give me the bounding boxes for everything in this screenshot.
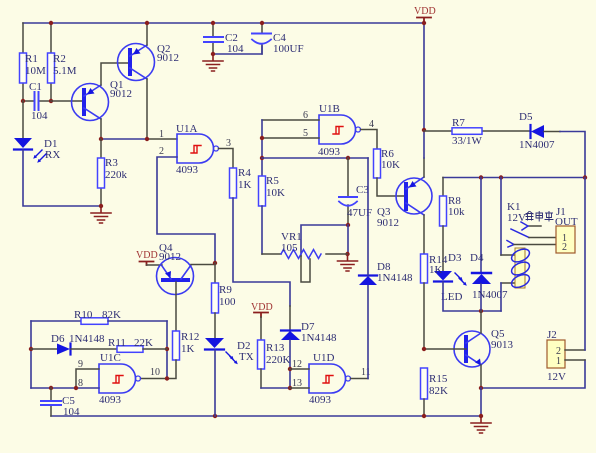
transistor Q3 [377,158,432,254]
svg-text:1N4148: 1N4148 [69,333,105,345]
ground bottom right [471,416,491,433]
wire R5 bottom to VR1 [261,206,263,254]
svg-text:10M: 10M [25,65,46,77]
resistor R11 [108,337,167,352]
node VDD at R13 [251,302,273,317]
wire D2 to bottom rail [214,350,216,416]
resistor R7 [424,117,530,147]
svg-text:R11: R11 [108,337,126,349]
svg-text:100: 100 [219,296,236,308]
svg-text:OUT: OUT [555,216,578,228]
capacitor C5 [41,388,80,418]
svg-text:11: 11 [361,367,371,378]
wire D5 to right column [560,132,585,178]
diode D2 TX [205,338,254,364]
wire U1D out to D8 [351,378,369,380]
wire R6 to Q3 base [377,178,406,196]
svg-text:220k: 220k [105,169,128,181]
junction R9 top [213,261,217,265]
svg-text:D6: D6 [51,333,65,345]
resistor R1 [20,23,47,101]
junction rail coil [499,175,503,179]
relay K1 [501,178,541,312]
svg-text:R13: R13 [266,342,285,354]
diode D1 RX [14,101,60,163]
junction Q2 emitter rail [145,21,149,25]
svg-text:R4: R4 [238,167,251,179]
diode D8 [359,158,413,285]
resistor R8 [440,178,466,272]
svg-text:33/1W: 33/1W [452,135,483,147]
junction R15 bottom [422,414,426,418]
svg-text:C1: C1 [29,81,42,93]
svg-text:10K: 10K [381,159,400,171]
svg-text:VDD: VDD [251,302,273,313]
junction U1D pin13 [288,386,292,390]
wire R4 to D7 [233,198,290,306]
junction C5 top [49,386,53,390]
junction U1B pin5 [260,136,264,140]
svg-text:2: 2 [562,242,567,253]
svg-text:1N4007: 1N4007 [472,289,508,301]
svg-text:82K: 82K [429,385,448,397]
svg-text:RX: RX [45,149,60,161]
svg-text:5.1M: 5.1M [53,65,77,77]
svg-text:10k: 10k [448,206,465,218]
svg-text:4093: 4093 [318,146,341,158]
diode D7 [281,321,337,369]
wire C3 to ground [347,225,349,254]
op-amp U1B [303,103,374,158]
svg-text:9012: 9012 [159,251,181,263]
wire relay supply rail [443,177,585,179]
node VDD at Q4 [136,250,158,265]
transistor Q5 [424,311,514,388]
junction C1 left [21,99,25,103]
ground below R3 [91,206,111,223]
junction Q2 collector [145,137,149,141]
svg-text:10K: 10K [266,187,285,199]
wire U1B pins 5 6 tie [262,120,319,138]
junction VDD rail top [422,21,426,25]
wire J1 pin1 [529,237,556,239]
wire Q5 emitter to J2 [481,360,585,388]
svg-text:D5: D5 [519,111,533,123]
svg-text:R3: R3 [105,157,118,169]
connector J1 [555,206,578,253]
wire R13 bottom to U1D pin13 [261,387,290,389]
junction R11 right [165,347,169,351]
svg-text:9012: 9012 [110,88,132,100]
svg-text:R12: R12 [181,331,199,343]
svg-text:R2: R2 [53,53,66,65]
resistor R9 [212,263,237,338]
svg-text:4093: 4093 [176,164,199,176]
junction U1C out [165,376,169,380]
wire J2 pin2 up [584,178,586,351]
diode D4 [470,178,508,312]
svg-text:9012: 9012 [377,217,399,229]
svg-text:R1: R1 [25,53,38,65]
svg-text:1N4148: 1N4148 [301,332,337,344]
svg-text:9013: 9013 [491,339,514,351]
svg-text:TX: TX [239,351,254,363]
junction R2 top rail [49,21,53,25]
transistor Q2 [118,23,180,139]
junction ground bottom [479,414,483,418]
svg-text:12V: 12V [507,212,526,224]
resistor R15 [421,368,449,416]
ground below VR1 [338,254,358,271]
resistor R10 [31,309,167,324]
wire C1 to Q1 base [51,100,84,102]
svg-text:1K: 1K [238,179,252,191]
wire C3 bottom to VR1 wiper [301,225,348,256]
svg-text:R9: R9 [219,284,232,296]
resistor R6 [374,148,401,178]
svg-text:1: 1 [159,129,164,140]
wire bottom rail [51,415,481,417]
op-amp U1C [78,352,160,406]
svg-text:D3: D3 [448,252,462,264]
junction pin9 tee [74,386,78,390]
svg-text:100UF: 100UF [273,43,304,55]
svg-text:J2: J2 [547,329,557,341]
svg-text:R7: R7 [452,117,465,129]
wire node A to U1A pin1 [101,138,148,140]
svg-text:U1B: U1B [319,103,340,115]
junction VR1 right [345,252,349,256]
svg-text:2: 2 [159,146,164,157]
svg-text:1K: 1K [429,264,443,276]
svg-text:104: 104 [63,406,80,418]
resistor R4 [230,167,252,198]
capacitor C3 [339,158,372,225]
svg-text:1N4148: 1N4148 [377,272,413,284]
svg-text:4: 4 [369,119,374,130]
resistor R13 [258,317,291,388]
junction Q5 collector node [479,309,483,313]
svg-text:10: 10 [150,367,160,378]
svg-text:1: 1 [556,356,561,367]
wire U1C pin8 [31,387,99,389]
svg-text:R5: R5 [266,175,279,187]
wire J1 pin2 [514,244,556,246]
wire R10 right column [166,321,168,379]
svg-text:U1C: U1C [100,352,121,364]
junction D6 left [29,347,33,351]
capacitor C4 [252,23,304,55]
svg-text:4093: 4093 [99,394,122,406]
svg-text:1N4007: 1N4007 [519,139,555,151]
capacitor C1 [23,81,51,122]
diode D5 [519,111,560,151]
svg-text:105: 105 [281,242,298,254]
ground below C2 [203,54,223,71]
wire C2 C4 bottoms [213,46,262,54]
wire left column D6 [30,321,32,388]
svg-text:D4: D4 [470,252,484,264]
wire VDD column to R7 junction [423,23,425,158]
junction Q5 base [422,347,426,351]
wire Q5 emitter to ground [480,388,482,416]
diode D6 [31,333,117,355]
wire D1 bottom to ground run [23,150,101,206]
junction C4 rail [260,21,264,25]
wire pins 12 13 tie [289,369,291,388]
svg-text:220K: 220K [266,354,291,366]
junction Q1 collector R3 [99,137,103,141]
svg-text:4093: 4093 [309,394,332,406]
svg-text:R10: R10 [74,309,93,321]
svg-text:R15: R15 [429,373,448,385]
wire U1B out to R6 [361,130,378,150]
junction C3 top [346,156,350,160]
junction U1D pin12 [288,367,292,371]
diode D3 LED [434,252,467,303]
junction D2 bottom [213,414,217,418]
resistor R14 [421,254,448,349]
wire U1A pin2 loop [157,157,215,263]
op-amp U1A [159,123,231,176]
svg-text:1K: 1K [181,343,195,355]
svg-text:9012: 9012 [157,52,179,64]
resistor R3 [98,139,128,206]
junction R3 bottom [99,204,103,208]
op-amp U1D [292,352,371,406]
junction R7 tee [422,128,426,132]
potentiometer VR1 [281,231,347,282]
capacitor C2 [204,23,244,55]
wire D3 bottom run [443,282,501,311]
wire top VDD rail [23,22,424,24]
wire U1C pin9 [76,369,99,388]
resistor R2 [48,23,77,101]
svg-text:104: 104 [31,110,48,122]
junction rail D4 [479,175,483,179]
wire U1D pin13 stub [290,387,309,389]
svg-text:22K: 22K [134,337,153,349]
transistor Q1 [72,63,133,139]
svg-text:12V: 12V [547,371,566,383]
connector J2 [547,329,585,383]
wire VDD to Q4 emitter [147,264,163,266]
junction rail right [583,175,587,179]
svg-text:U1D: U1D [313,352,334,364]
resistor R12 [141,331,200,379]
junction C2 rail [211,21,215,25]
svg-text:LED: LED [441,291,462,303]
wire U1A pin3 to R4 [219,149,234,169]
junction Q5 emitter [479,386,483,390]
junction C2 bottom [211,52,215,56]
junction C1 right [49,99,53,103]
transistor Q4 [157,242,216,331]
label 继电器 glyphs [526,212,553,222]
svg-text:VDD: VDD [136,250,158,261]
junction C3 bottom [346,223,350,227]
svg-text:3: 3 [226,138,231,149]
node VDD top [414,6,436,23]
svg-text:U1A: U1A [176,123,197,135]
svg-text:82K: 82K [102,309,121,321]
wire RC node to C3 D8 [262,157,368,159]
wire U1D pin12 stub [290,368,309,370]
junction RC node [260,156,264,160]
svg-text:VDD: VDD [414,6,436,17]
resistor R5 [259,175,286,206]
